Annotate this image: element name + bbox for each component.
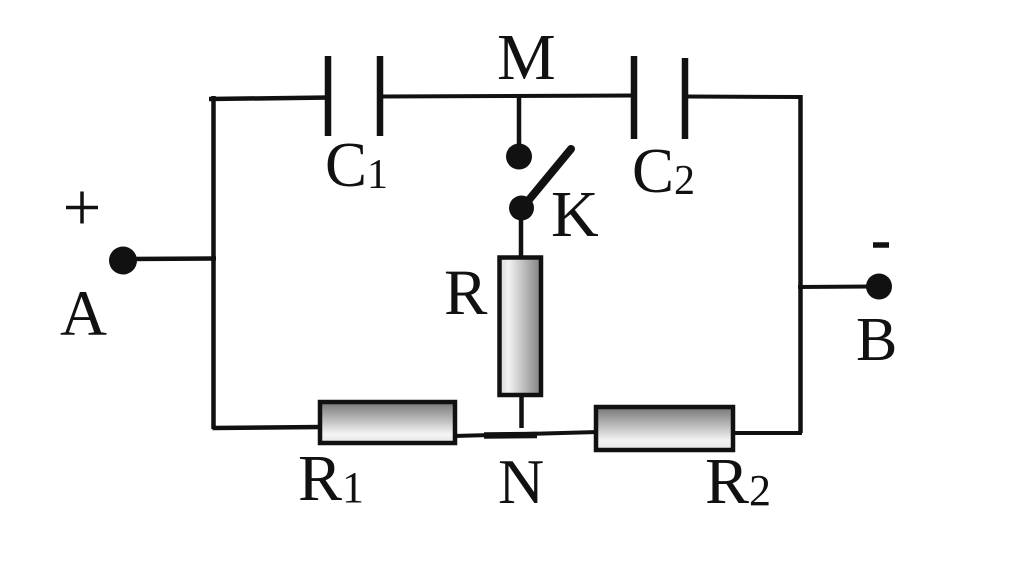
svg-text:2: 2: [674, 158, 695, 204]
svg-text:1: 1: [367, 152, 388, 198]
wire: bottom-left horizontal segment: [213, 427, 323, 428]
resistor R: [500, 258, 542, 396]
terminal A: [109, 247, 137, 275]
svg-text:R: R: [705, 445, 749, 518]
minus sign at B: [873, 242, 889, 248]
wire: bottom-right horizontal segment: [731, 431, 802, 435]
svg-text:C: C: [632, 136, 674, 206]
svg-text:1: 1: [342, 463, 364, 512]
svg-text:2: 2: [749, 466, 771, 515]
wire: top-right horizontal segment: [687, 95, 802, 100]
wire: right rail B side vertical: [798, 95, 803, 433]
svg-text:B: B: [856, 306, 897, 374]
wire: terminal A lead: [130, 256, 216, 261]
svg-text:R: R: [444, 257, 488, 329]
svg-text:A: A: [60, 278, 107, 350]
wire: switch to resistor R stub: [519, 210, 524, 260]
node N tick: [484, 432, 537, 439]
wire: bottom middle segment R1 to R2 through N: [454, 432, 598, 436]
plus sign at A: [66, 192, 98, 224]
wire: resistor R to node N stub: [519, 395, 524, 428]
capacitor C1: [328, 56, 380, 136]
resistor R1: [320, 402, 455, 443]
node M: [517, 96, 522, 150]
wire: terminal B lead: [798, 285, 872, 290]
svg-text:M: M: [497, 21, 556, 94]
svg-text:N: N: [498, 446, 544, 517]
switch K: [509, 149, 571, 221]
terminal B: [866, 274, 892, 300]
svg-text:K: K: [551, 178, 599, 251]
wire: top-left horizontal segment: [209, 98, 330, 100]
wire: top middle segment from C1 to C2 through M: [382, 96, 635, 97]
svg-text:C: C: [325, 130, 367, 200]
wire: left rail A side vertical: [211, 96, 216, 429]
resistor R2: [596, 407, 733, 450]
capacitor C2: [634, 56, 685, 139]
svg-text:R: R: [298, 442, 342, 515]
